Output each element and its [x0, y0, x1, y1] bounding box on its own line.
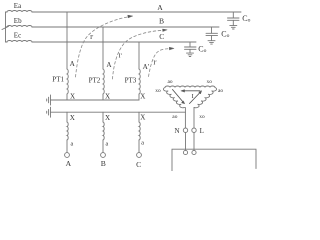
wire PT3 secondary to terminal: [138, 140, 140, 152]
svg-text:L: L: [200, 127, 204, 135]
PT3 secondary winding: [139, 122, 140, 140]
PT1 primary winding: [67, 69, 68, 94]
neutral tick: [2, 26, 9, 29]
svg-text:ao: ao: [218, 88, 223, 94]
wire line C: [32, 41, 196, 43]
PT2 secondary winding: [103, 122, 104, 140]
svg-text:PT1: PT1: [52, 76, 64, 84]
box terminal circle right: [192, 150, 196, 154]
terminal B circle: [101, 153, 106, 158]
neutral vertical wire: [5, 12, 7, 42]
arrowhead of I' path 3: [169, 47, 174, 50]
svg-text:PT3: PT3: [125, 77, 137, 85]
svg-text:X: X: [70, 114, 75, 122]
svg-text:C: C: [136, 160, 141, 169]
svg-text:I′: I′: [153, 59, 157, 66]
capacitor Co on line C: [185, 42, 197, 57]
wire PT2 secondary to terminal: [102, 140, 104, 152]
svg-text:A: A: [157, 3, 163, 12]
wire PT2 secondary from bus: [102, 112, 104, 122]
PT3 primary winding: [139, 69, 140, 94]
svg-text:X: X: [140, 113, 145, 121]
svg-text:Co: Co: [221, 30, 229, 39]
svg-text:a: a: [71, 140, 74, 147]
svg-text:PT2: PT2: [89, 77, 101, 85]
wire PT3 secondary from bus: [138, 112, 140, 122]
arrow delta right leg: [190, 91, 202, 104]
broken delta left winding: [163, 88, 184, 108]
wire PT1 drop from line A: [66, 12, 68, 69]
capacitor Co on line A: [228, 12, 240, 29]
ground for secondary bus: [47, 107, 51, 117]
load box: [172, 149, 256, 171]
broken delta top winding: [165, 86, 215, 88]
svg-text:C: C: [159, 32, 164, 41]
svg-text:Co: Co: [198, 45, 206, 54]
svg-text:A′: A′: [143, 63, 150, 71]
arrow delta left leg: [173, 90, 185, 104]
terminal A circle: [65, 153, 70, 158]
wire delta left end to N: [184, 108, 186, 128]
wire line B: [32, 26, 219, 28]
svg-text:N: N: [175, 127, 180, 135]
wire PT1 secondary to terminal: [66, 140, 68, 152]
svg-text:xo: xo: [199, 114, 205, 120]
wire PT3 drop from line C: [138, 42, 140, 69]
svg-text:X: X: [70, 92, 75, 100]
svg-text:Co: Co: [242, 14, 250, 23]
source Ec: [6, 41, 33, 43]
secondary neutral bus: [51, 111, 186, 113]
arrowhead of I' path 1: [128, 15, 133, 18]
svg-text:X: X: [140, 92, 145, 100]
wire line A: [32, 11, 241, 13]
dashed current path I' from PT1 to line A: [76, 17, 129, 77]
wire PT1 secondary from bus: [66, 112, 68, 122]
dashed current path I' from PT2 to line B: [113, 30, 164, 79]
arrow I in delta: [181, 90, 200, 92]
wire L to box: [193, 132, 195, 150]
wire N to box: [185, 132, 187, 150]
ground for primary bus: [47, 95, 51, 105]
terminal N circle: [183, 128, 187, 132]
dashed current path I' from PT3 to line C: [149, 49, 171, 77]
source Eb: [6, 26, 33, 28]
svg-text:I: I: [192, 93, 194, 100]
arrowhead of I' path 2: [163, 29, 168, 31]
svg-text:I′: I′: [119, 53, 123, 60]
svg-text:Ea: Ea: [14, 2, 22, 10]
broken delta right winding: [194, 88, 217, 108]
box terminal circle left: [183, 150, 187, 154]
wire PT3 to bus: [138, 94, 140, 100]
source Ea: [6, 11, 33, 13]
svg-text:xo: xo: [155, 88, 161, 94]
primary ground bus: [51, 99, 140, 101]
svg-text:B: B: [159, 17, 164, 26]
svg-text:A: A: [66, 159, 72, 168]
svg-text:xo: xo: [207, 79, 213, 85]
wire PT2 drop from line B: [102, 27, 104, 69]
PT1 secondary winding: [67, 122, 68, 140]
svg-text:Ec: Ec: [14, 32, 21, 40]
wire PT2 to bus: [102, 94, 104, 100]
svg-text:ao: ao: [168, 79, 173, 85]
svg-text:I′: I′: [90, 34, 94, 41]
capacitor Co on line B: [206, 27, 218, 44]
wire PT1 to bus: [66, 94, 68, 100]
svg-text:X: X: [105, 114, 110, 122]
wire delta right end to L: [193, 108, 195, 128]
svg-text:A: A: [106, 61, 112, 69]
svg-text:a: a: [141, 139, 144, 146]
terminal L circle: [192, 128, 196, 132]
svg-text:ao: ao: [172, 114, 177, 120]
terminal C circle: [137, 153, 142, 158]
svg-text:A: A: [70, 60, 76, 68]
svg-text:Eb: Eb: [14, 17, 22, 25]
svg-text:a: a: [106, 140, 109, 147]
svg-text:X: X: [105, 92, 110, 100]
PT2 primary winding: [103, 69, 104, 94]
svg-text:B: B: [101, 159, 106, 168]
